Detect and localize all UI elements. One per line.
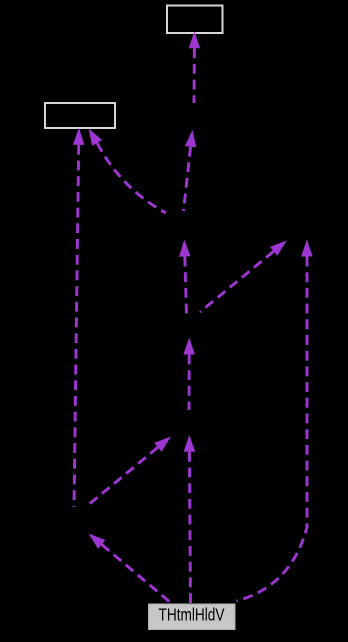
svg-text:THtmlHldV: THtmlHldV [159,605,225,625]
